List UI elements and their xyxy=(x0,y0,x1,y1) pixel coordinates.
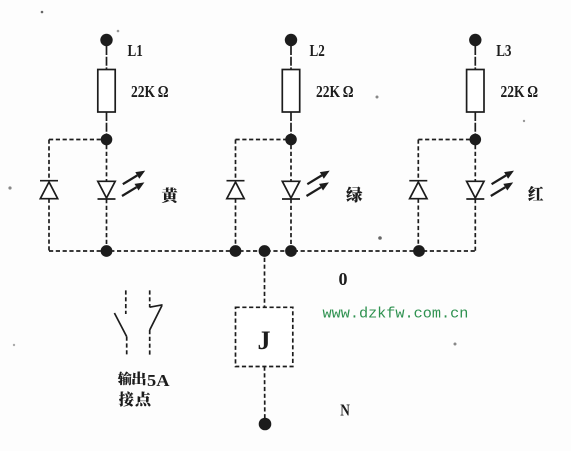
svg-text:www.dzkfw.com.cn: www.dzkfw.com.cn xyxy=(323,305,469,323)
svg-text:5A: 5A xyxy=(147,371,170,390)
svg-text:0: 0 xyxy=(339,269,348,289)
svg-text:J: J xyxy=(258,326,271,355)
svg-text:22K Ω: 22K Ω xyxy=(131,82,169,101)
svg-text:L1: L1 xyxy=(128,41,143,60)
svg-text:N: N xyxy=(340,401,350,420)
svg-text:L2: L2 xyxy=(310,41,325,60)
svg-text:22K Ω: 22K Ω xyxy=(316,82,354,101)
svg-text:L3: L3 xyxy=(496,41,511,60)
svg-text:22K Ω: 22K Ω xyxy=(501,82,539,101)
